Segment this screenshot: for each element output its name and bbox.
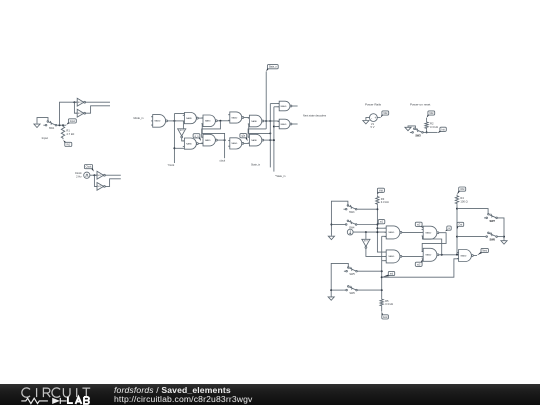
svg-text:NAND: NAND [232,142,238,145]
svg-text:NAND: NAND [281,105,287,108]
wire U2 out to U5 [198,117,203,119]
switch SW7 [484,213,497,218]
svg-text:Out: Out [459,223,463,226]
svg-text:NAND: NAND [186,117,192,120]
wire State_n vertical [265,72,267,129]
wire to BUF2 input [74,102,77,113]
svg-text:Gnd: Gnd [383,317,388,319]
svg-text:NAND: NAND [251,120,257,123]
nand gate U6 [228,112,244,123]
wire X1 output [86,101,111,103]
flag Out [457,222,464,229]
svg-text:Clock: Clock [75,171,82,175]
svg-text:NAND: NAND [251,139,257,142]
inverter U3 [177,129,186,138]
wire rail2 to SW6 [331,289,344,291]
wire ground to SW2 [408,126,415,129]
svg-text:NAND: NAND [232,116,238,119]
ground GND4 [328,235,334,239]
wire I1 to U13 [353,231,386,233]
flag State_n [266,65,278,72]
wire bus2 to U13 in3 [382,235,387,237]
flag q2n [240,134,248,142]
wire Vdd to R2 [426,118,428,121]
wire bus to U13 input [377,227,386,229]
voltage source V1 [370,114,378,122]
wire U18 out to U16 input [422,237,441,255]
flag Init [438,127,447,133]
svg-text:State_in: State_in [251,164,261,167]
junction clock branch [93,174,95,176]
nand gate U7 [201,134,217,146]
inverter X2 [76,109,86,117]
wire State_in vertical [269,104,271,168]
flag st1 [377,220,384,225]
wire to U2 top input [174,114,184,116]
wire SW3 over to rail [331,201,348,235]
flag Input [66,119,76,125]
wire clock terminal [224,140,226,158]
switch SW4 [344,220,357,225]
junction bus3 / SW7 [456,208,458,210]
junction node Input / R1 [62,124,64,126]
wire bus2 to U15 in3 [382,260,387,262]
svg-text:4.7 kΩ: 4.7 kΩ [66,132,74,136]
wire U18 out to U17 [439,254,459,256]
svg-text:Next state decoders: Next state decoders [303,113,327,117]
flag Vdd 3 [377,188,384,195]
svg-text:State_n: State_n [269,66,278,69]
svg-text:SW6: SW6 [349,292,355,295]
junction U5 out cross [219,120,221,122]
junction bus / SW3 [376,208,378,210]
wire bus3 to SW8 [457,236,484,238]
wire bus2 to U17 input [382,259,459,277]
nand gate U11 [278,101,292,111]
wire X2 output [86,106,111,113]
svg-text:NAND: NAND [425,232,431,235]
wire *State_in vertical [273,107,275,172]
junction cross / State_in line [269,132,271,134]
wire U10 out [264,139,274,141]
junction rail3 / SW8 [503,236,505,238]
junction U8 out / State_n line [265,120,267,122]
svg-text:SW2: SW2 [415,134,421,137]
wire U10 out to U8 input [249,124,271,133]
wire U3 out to U4 input [182,138,185,141]
svg-text:*State_in: *State_in [275,175,286,178]
svg-text:NAND: NAND [281,123,287,126]
junction node Input / buffer branch [59,124,61,126]
wire to U11 upper input [270,103,279,105]
junction *clock / U4 input [173,147,175,149]
nand gate U12 [278,119,292,129]
svg-text:NAND: NAND [388,231,394,234]
nand gate U8 [248,115,264,127]
flag Clock [84,165,93,172]
wire R5 to flag [381,307,383,312]
wire U5 out to U6 [217,120,230,122]
nand gate U9 [228,138,244,149]
flag IN1 [63,140,72,147]
wire to X4 input [94,175,97,186]
wire SW5 over to rail2 [331,263,348,296]
nand gate U17 [457,250,473,262]
wire X3 output [105,174,121,176]
wire U4 out to U7 [198,143,203,145]
wire R2 to node Init [426,130,428,133]
svg-text:Vdd: Vdd [379,190,384,192]
wire SW8 to rail3 [497,236,504,238]
flag st3 [415,258,423,266]
junction U18 out cross [441,254,443,256]
wire SW7 to rail3 [497,218,504,240]
junction bus2 / SW5 [381,270,383,272]
wire U6 out to U8 [244,117,250,119]
resistor R4 [455,195,467,205]
junction U8 out / State_in line [269,120,271,122]
junction bus3 / U17 input [456,254,458,256]
svg-text:clock: clock [219,160,225,163]
svg-text:100 Ω: 100 Ω [460,199,467,203]
resistor R2 [425,121,438,130]
wire node up to BUF1 input [60,102,78,125]
wire to U11 lower input [274,106,279,108]
svg-text:NAND: NAND [155,120,161,123]
wire V1 to ground [366,118,370,120]
flag md [382,271,394,277]
svg-text:5 V: 5 V [371,125,375,129]
flag Vdd 4 [457,187,466,195]
inverter U14 [361,239,370,248]
wire U13 out to U16 [402,231,423,233]
wire bus R3 to U15 input [377,205,386,252]
wire *clock vertical [173,114,175,163]
wire bus2 vertical [381,236,383,298]
switch SW8 [484,232,497,237]
svg-text:NAND: NAND [186,142,192,145]
wire SW3 to bus [357,208,378,210]
svg-text:Power-on reset: Power-on reset [410,102,431,106]
nand gate U18 [422,248,439,261]
nand gate U13 [385,226,402,239]
wire U8 out to U11 [264,120,280,122]
svg-text:3.3 kΩ: 3.3 kΩ [385,302,393,306]
svg-text:3.3 kΩ: 3.3 kΩ [430,125,438,129]
ground GND1 [34,123,40,127]
svg-text:+: + [374,116,376,120]
switch SW6 [344,286,357,291]
wire clock to X3 [90,174,97,176]
svg-text:Vdd: Vdd [460,189,465,191]
flag q_n [193,134,201,141]
junction *clock bus / U1 [173,120,175,122]
wire rail to SW4 [331,224,343,226]
svg-text:SW7: SW7 [489,220,495,223]
footer bar [0,384,540,405]
clock source V2 [84,172,90,178]
wire U17 out [473,255,477,257]
inverter X1 [76,98,86,106]
current source I1 [347,229,353,235]
ground GND2 [363,120,369,124]
wire X4 output [105,179,121,187]
junction Init node [426,131,428,133]
svg-text:Next: Next [482,250,487,253]
flag st2 [415,222,423,228]
svg-text:NAND: NAND [205,139,211,142]
flag Vdd 1 [381,111,389,118]
CircuitLab logo [0,384,110,405]
svg-text:Vdd: Vdd [429,113,434,115]
wire SW6 to bus2 [357,289,381,291]
svg-text:Mode_in: Mode_in [134,116,145,120]
flag Gnd [382,312,389,319]
junction bus2 / SW6 [381,289,383,291]
junction *state to U12 [273,126,275,128]
inverter X4 [95,183,105,191]
wire to U12 lower input [274,126,279,128]
wire U7 out [217,139,224,141]
svg-text:-: - [371,116,372,120]
flag a1 [445,226,451,231]
junction rail2 / SW6 [330,289,332,291]
wire U1 out [168,120,184,122]
junction I1 wire / bus [376,231,378,233]
junction rail / SW4 [330,224,332,226]
wire to NOT U14 [365,232,367,239]
switch SW5 [344,267,357,272]
wire U15 out [402,255,423,257]
wire U9 out to U10 [244,142,250,144]
wire ground to SW1 [37,118,48,124]
junction *state / U10 out [273,139,275,141]
nand gate U10 [248,134,264,146]
wire U12 out [292,123,298,125]
wire U7 out to U5 input [202,124,224,140]
wire SW2 to flag Init [423,131,437,133]
ground GND3 [405,126,411,130]
nand gate U5 [201,115,217,127]
flag Next [477,248,488,255]
svg-text:SW3: SW3 [349,211,355,214]
svg-text:2 Hz: 2 Hz [76,175,82,179]
wire U14 out to U15 [366,248,386,256]
wire bus3 vertical [456,205,458,255]
wire cross to U10 input [248,129,266,137]
nand gate U16 [422,226,439,239]
svg-text:Init: Init [442,128,445,131]
svg-text:3.3 kΩ: 3.3 kΩ [381,200,389,204]
svg-text:NAND: NAND [388,255,394,258]
svg-text:SW8: SW8 [489,239,495,242]
nand gate U4 [183,138,199,149]
svg-text:NAND: NAND [425,254,431,257]
svg-text:NAND: NAND [205,120,211,123]
wire V1 plus [377,117,380,119]
nand gate U2 [183,113,199,124]
junction U10 out cross [269,139,271,141]
svg-text:Vdd: Vdd [383,113,388,115]
flag Vdd 2 [427,111,435,118]
junction bus3 / SW8 [456,236,458,238]
junction U7 out cross [224,139,226,141]
svg-text:*clock: *clock [168,164,175,167]
switch SW2 [410,128,423,133]
junction bus2 / long wire [381,276,383,278]
wire U5 out to U7 input [202,121,221,137]
svg-text:SW5: SW5 [349,273,355,276]
svg-text:Power Rails: Power Rails [365,102,382,106]
svg-text:SW1: SW1 [49,127,55,130]
inverter X3 [95,171,105,179]
switch SW1 [43,121,56,126]
junction buffer inputs [73,101,75,103]
resistor R5 [380,298,393,307]
junction bus / U13 input [376,227,378,229]
svg-text:NAND: NAND [461,254,467,257]
wire SW4 to bus [357,224,378,226]
wire U16 out to U18 input [422,233,446,252]
resistor R1 [61,125,74,139]
switch SW3 [344,205,357,210]
ground GND5 [328,296,334,300]
junction I1 wire / NOT U14 [365,231,367,233]
wire SW1 to node [57,124,66,126]
svg-text:Input: Input [70,120,75,123]
svg-text:Input: Input [42,136,49,140]
junction bus / SW4 [376,224,378,226]
nand gate U15 [385,250,402,263]
ground GND6 [501,240,507,244]
wire bus3 to SW7 [457,209,488,214]
wire to U4 lower input [174,147,184,149]
nand gate U1 [151,115,167,128]
resistor R3 [376,195,389,205]
wire U11 out [292,105,298,107]
wire down to NOT U3 [182,121,184,129]
wire SW5 to bus2 [357,270,381,272]
svg-text:Clock: Clock [86,167,93,169]
